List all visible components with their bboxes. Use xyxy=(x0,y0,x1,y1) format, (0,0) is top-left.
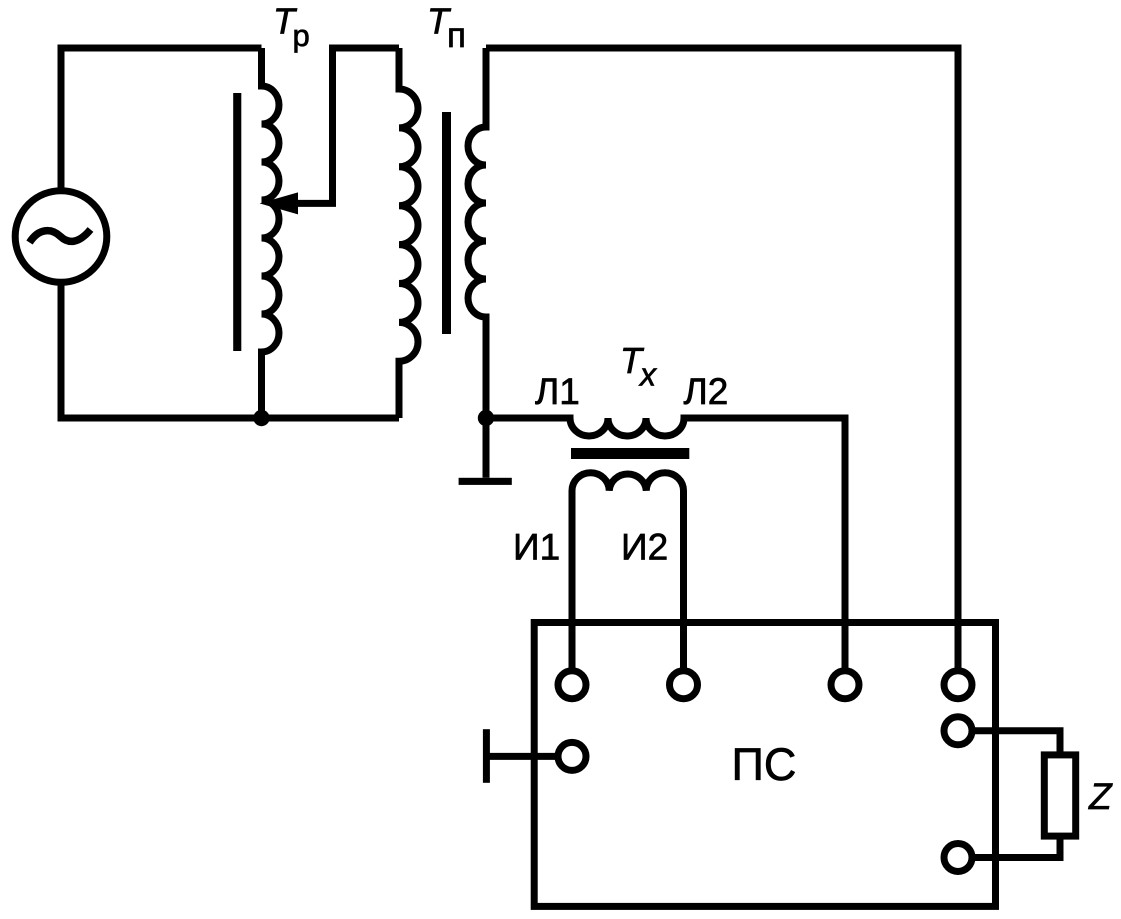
terminal circle T1 (И1) xyxy=(558,671,586,699)
current transformer Tx secondary winding И1-И2 xyxy=(572,473,684,668)
svg-text:р: р xyxy=(293,18,310,53)
junction dot at Tp winding bottom xyxy=(253,410,269,426)
svg-text:Л1: Л1 xyxy=(535,371,580,412)
box ПС xyxy=(534,623,995,907)
wire: source top to Tp winding top xyxy=(61,48,262,191)
terminal circle T4 (top-right wire) xyxy=(944,671,972,699)
transformer Tп secondary winding xyxy=(468,48,486,478)
junction dot at Tп secondary bottom xyxy=(478,410,494,426)
terminal circle T2 (И2) xyxy=(670,671,698,699)
transformer Tп primary winding xyxy=(399,48,418,418)
wire: Z bottom xyxy=(974,836,1060,857)
wiper arrow shaft to Tп primary top xyxy=(296,48,399,203)
ground terminal bar xyxy=(483,729,490,783)
svg-text:И1: И1 xyxy=(513,527,560,568)
wire: source bottom + bottom bus to Tп primary xyxy=(61,282,399,418)
svg-text:Z: Z xyxy=(1088,776,1113,817)
terminal circle right upper (Z) xyxy=(944,717,972,745)
AC sine symbol xyxy=(30,230,91,243)
ground bar under Tп secondary xyxy=(459,478,512,485)
svg-text:Л2: Л2 xyxy=(684,371,729,412)
wire: Z top xyxy=(974,731,1060,755)
svg-text:И2: И2 xyxy=(621,527,668,568)
svg-text:п: п xyxy=(447,16,466,55)
terminal circle right lower (Z) xyxy=(944,844,972,872)
current transformer Tx core bar xyxy=(571,448,689,459)
ground terminal wire left of ПС xyxy=(486,753,556,760)
current transformer Tx primary winding Л1-Л2 xyxy=(486,418,845,668)
terminal circle left (ground) xyxy=(558,742,586,770)
terminal circle T3 (Л2 wire) xyxy=(831,671,859,699)
autotransformer Tp core bar xyxy=(233,93,241,351)
wiper arrow head xyxy=(260,192,299,214)
AC source G1 xyxy=(15,191,107,283)
svg-text:ПС: ПС xyxy=(732,739,797,790)
transformer Tп core bar xyxy=(442,112,451,334)
svg-text:x: x xyxy=(638,357,657,393)
autotransformer Tp winding xyxy=(262,48,280,418)
load Z rectangle xyxy=(1044,755,1075,836)
wire: top right from Tп secondary to ПС terminal 4 xyxy=(486,48,958,668)
